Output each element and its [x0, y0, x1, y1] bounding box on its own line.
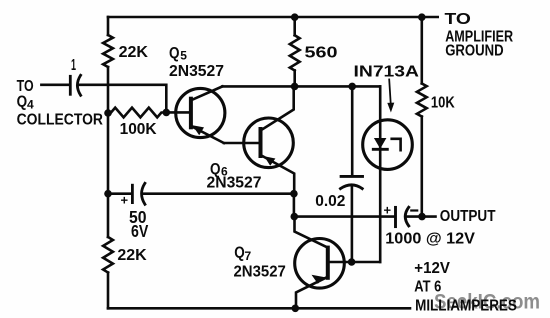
svg-text:TO: TO: [17, 78, 34, 95]
transistor Q7 collector: [295, 217, 328, 248]
node dot 0.02 bottom: [348, 258, 356, 266]
capacitor C3 0.02 bottom lead: [351, 186, 354, 262]
svg-text:6V: 6V: [131, 221, 149, 241]
wire 50uF from rail: [108, 192, 131, 195]
capacitor C2 50uF plates: [131, 185, 134, 202]
svg-text:+: +: [384, 203, 392, 218]
node dot 50uF left: [104, 190, 112, 198]
node dot 560 top: [291, 13, 299, 21]
wire 10K bottom lead: [420, 117, 423, 217]
arrow Q7 emitter: [312, 275, 326, 284]
wire left rail middle: [107, 67, 110, 237]
svg-text:1000 @ 12V: 1000 @ 12V: [385, 231, 475, 248]
svg-text:Q: Q: [17, 94, 28, 111]
arrow Q6 emitter: [264, 156, 275, 166]
resistor R4 22K (bottom left): [103, 237, 113, 273]
svg-text:COLLECTOR: COLLECTOR: [17, 112, 104, 129]
zener D1 lead vertical: [379, 86, 382, 262]
transistor Q5 circle: [176, 88, 225, 137]
op wire collector bus y86: [222, 85, 380, 88]
node dot 0.02 top: [348, 83, 356, 91]
wire left rail upper: [107, 17, 110, 35]
transistor Q5 emitter: [191, 126, 224, 143]
transistor Q6 collector: [261, 86, 294, 130]
svg-text:GROUND: GROUND: [445, 43, 504, 60]
minus sign: [411, 209, 417, 211]
transistor Q6 emitter: [261, 155, 295, 194]
zener D1 triangle: [374, 138, 387, 149]
wire 560 top lead: [293, 17, 296, 35]
wire Q6 emitter node down to Q7 collector node: [293, 194, 296, 217]
wire Q5 base lead: [166, 111, 191, 114]
svg-text:AT 6: AT 6: [414, 278, 441, 295]
node dot Q7 emitter rail: [292, 305, 300, 313]
wire output to terminal: [407, 215, 436, 218]
svg-text:OUTPUT: OUTPUT: [440, 208, 496, 225]
wire input right to Q5 base corner: [79, 85, 167, 113]
wire 560 bottom lead: [293, 71, 296, 87]
transistor Q6 circle: [244, 118, 294, 168]
svg-text:TO: TO: [445, 11, 471, 28]
wire 50uF to Q6 emitter node: [143, 192, 294, 195]
transistor Q6 bar: [259, 129, 263, 156]
zener D1 cathode bar: [373, 148, 387, 151]
node dot output: [418, 213, 426, 221]
transistor Q7 emitter: [296, 277, 328, 309]
arrowhead IN713A: [387, 103, 394, 113]
svg-text:2N3527: 2N3527: [207, 175, 262, 192]
zener D1 circle: [363, 120, 413, 170]
capacitor C4 1000uF plates: [394, 207, 397, 226]
svg-text:+12V: +12V: [414, 260, 450, 277]
svg-text:+: +: [121, 193, 129, 208]
capacitor C3 0.02 plates: [341, 175, 362, 178]
capacitor C3 0.02 top lead: [351, 86, 354, 175]
arrow Q5 emitter: [192, 125, 204, 135]
transistor Q7 circle: [295, 238, 345, 288]
svg-text:MILLIAMPERES: MILLIAMPERES: [415, 297, 517, 314]
node dot Q6 emitter: [290, 190, 298, 198]
node dot Q5 base: [163, 109, 171, 117]
svg-text:IN713A: IN713A: [354, 63, 420, 80]
svg-text:22K: 22K: [117, 247, 147, 264]
node dot input: [104, 109, 112, 117]
arrow IN713A pointer: [389, 80, 391, 106]
svg-text:2N3527: 2N3527: [234, 264, 286, 281]
svg-text:Q: Q: [169, 45, 180, 62]
svg-text:7: 7: [245, 249, 252, 263]
wire input left: [41, 84, 69, 87]
wire A output bus left: [294, 215, 394, 218]
resistor R1 22K (top left): [103, 35, 113, 67]
resistor R2 560: [290, 35, 300, 70]
wire bottom rail: [108, 307, 410, 310]
svg-text:10K: 10K: [431, 94, 455, 111]
transistor Q5 collector: [191, 86, 223, 100]
svg-text:1: 1: [71, 57, 76, 74]
svg-text:4: 4: [27, 98, 34, 112]
wire zener bottom to Q7 base: [328, 261, 380, 264]
node dot 10K top: [418, 13, 426, 21]
zener D1 bracket: [392, 139, 401, 150]
svg-text:22K: 22K: [119, 44, 149, 61]
node dot Q7 collector: [291, 213, 299, 221]
resistor R3 10K: [417, 84, 427, 117]
svg-text:0.02: 0.02: [315, 193, 345, 210]
transistor Q5 bar: [189, 99, 193, 128]
wire left rail lower: [107, 273, 110, 309]
svg-text:100K: 100K: [120, 121, 157, 138]
wire Q5 emitter to Q6 base: [224, 142, 261, 145]
svg-text:Q: Q: [234, 245, 245, 262]
capacitor C1 1uF plates: [69, 76, 72, 94]
svg-text:5: 5: [180, 49, 187, 63]
wire top rail: [108, 16, 438, 19]
node dot 560 bottom: [291, 83, 299, 91]
svg-text:2N3527: 2N3527: [169, 63, 224, 80]
svg-text:560: 560: [305, 45, 338, 62]
wire 10K top lead: [420, 17, 423, 84]
transistor Q7 bar: [326, 248, 330, 278]
resistor R5 100K: [111, 108, 166, 118]
